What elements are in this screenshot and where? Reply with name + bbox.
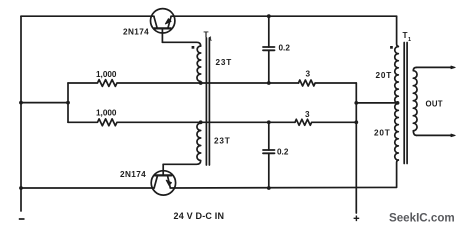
transformer T1 feedback: phase dot: [192, 46, 195, 49]
wire: center tap wire to T1 output primary: [356, 102, 397, 104]
resistor R1 1,000 (top branch): [68, 80, 201, 87]
svg-text:T: T: [204, 31, 209, 40]
svg-text:20T: 20T: [376, 71, 393, 80]
label 23T (upper winding): [216, 58, 233, 67]
svg-text:1: 1: [209, 37, 212, 43]
wire: top rail left segment (left rail to Q1 emitter foot): [21, 15, 154, 17]
label 2N174 (Q1): [123, 28, 149, 37]
label 20T (lower half primary): [374, 129, 391, 138]
wire: branch vertical at x=68: [67, 83, 69, 122]
wire: Q2 base lead from T1 feedback lower winding: [162, 164, 164, 171]
label 24 V D-C IN: [174, 211, 225, 221]
transformer T1 feedback: lower 23T winding: [163, 122, 201, 164]
resistor R2 1,000 (lower branch): [68, 119, 201, 126]
svg-text:20T: 20T: [374, 129, 391, 138]
label 3 (R3): [306, 69, 311, 78]
svg-text:24 V D-C IN: 24 V D-C IN: [174, 211, 225, 221]
svg-text:3: 3: [305, 110, 310, 119]
resistor R3 3 ohm (top branch): [299, 80, 357, 86]
svg-text:0.2: 0.2: [279, 44, 291, 53]
svg-text:T: T: [403, 31, 408, 40]
wire: top right vertical drop to T1 output primary top: [397, 16, 399, 46]
transformer T1 output: phase dot: [390, 46, 393, 49]
transformer T1 feedback: upper 23T winding: [197, 46, 201, 83]
svg-text:3: 3: [306, 69, 311, 78]
wire: top branch from winding junction to cap junction and R3: [201, 82, 299, 84]
label T1 (output transformer): [403, 31, 412, 43]
label 2N174 (Q2): [120, 170, 146, 179]
label 1,000 (R1): [96, 70, 117, 79]
label 3 (R4): [305, 110, 310, 119]
capacitor C1 0.2 (top): [263, 16, 275, 83]
transformer T1 output: core lines: [404, 43, 407, 164]
label minus terminal: [19, 218, 25, 220]
wire: OUT top lead with arrow tip: [417, 66, 456, 69]
wire: supply center wire (left rail to resistor branch point): [21, 102, 68, 104]
svg-text:0.2: 0.2: [277, 147, 289, 156]
capacitor C2 0.2 (bottom): [263, 122, 275, 188]
label 0.2 (C1): [279, 44, 291, 53]
label 20T (upper half primary): [376, 71, 393, 80]
wire: OUT bottom lead with arrow tip: [417, 134, 456, 137]
wire: bottom rail left segment: [21, 187, 154, 189]
transformer T1 output: primary 20T+20T winding: [395, 47, 399, 161]
wire: Q1 base lead to T1 feedback upper winding: [162, 42, 200, 46]
transformer T1 feedback: core lines: [206, 38, 209, 165]
svg-text:23T: 23T: [214, 136, 231, 145]
wire: lower branch from winding junction to cap junction and R4: [201, 121, 295, 123]
svg-text:1,000: 1,000: [96, 70, 117, 79]
svg-text:SeekIC.com: SeekIC.com: [389, 212, 455, 225]
svg-text:2N174: 2N174: [123, 28, 149, 37]
svg-text:OUT: OUT: [426, 99, 443, 108]
svg-text:23T: 23T: [216, 58, 233, 67]
svg-text:1: 1: [408, 37, 411, 43]
wire: left rail vertical: [20, 16, 22, 211]
label OUT: [426, 99, 443, 108]
label T1 (feedback transformer): [204, 31, 213, 43]
label 0.2 (C2): [277, 147, 289, 156]
svg-text:1,000: 1,000: [96, 108, 117, 117]
label 1,000 (R2): [96, 108, 117, 117]
label 23T (lower winding): [214, 136, 231, 145]
wire: top rail right segment (Q1 collector foot to right corner): [171, 15, 397, 17]
transistor Q1 (2N174, top): [151, 9, 175, 43]
wire: bottom rail right segment to T1 output primary bottom: [170, 160, 398, 188]
resistor R4 3 ohm (lower branch): [295, 119, 356, 125]
wire: right vertical bus x=356 (plus terminal riser): [355, 83, 357, 213]
transistor Q2 (2N174, bottom): [151, 171, 175, 195]
label plus terminal: [354, 216, 360, 222]
svg-text:2N174: 2N174: [120, 170, 146, 179]
watermark SeekIC.com: [389, 212, 455, 225]
transformer T1 output: secondary winding: [413, 67, 417, 135]
